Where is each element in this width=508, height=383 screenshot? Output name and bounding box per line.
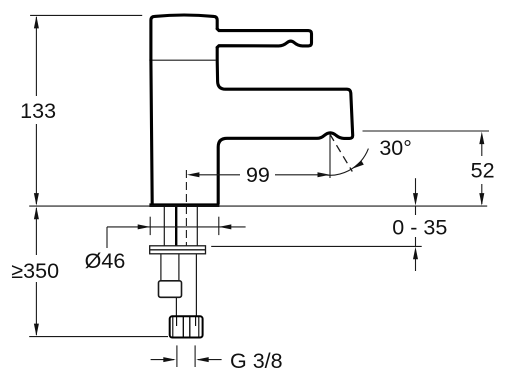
supply tube left, outer line <box>163 207 165 246</box>
aerator level reference line <box>363 130 490 132</box>
svg-text:G 3/8: G 3/8 <box>230 349 283 373</box>
dimension >=350: top arrowhead <box>34 207 39 220</box>
lever handle <box>217 29 311 48</box>
dimension 0-35: dimension line <box>415 178 417 271</box>
svg-text:30°: 30° <box>379 136 412 160</box>
dimension G3/8: left arrowhead <box>163 357 176 362</box>
right supply hose <box>195 254 197 316</box>
angle 30 deg: arc <box>319 149 368 176</box>
dimension 99: right arrowhead <box>318 172 331 177</box>
dimension 0-35: lower arrowhead <box>413 247 418 259</box>
cap seam line <box>152 59 216 61</box>
svg-text:133: 133 <box>20 99 56 123</box>
dimension 133: top extension line <box>30 14 142 16</box>
dimension 52: top arrowhead <box>479 132 484 145</box>
svg-text:Ø46: Ø46 <box>85 249 126 273</box>
dimension G3/8: extension lines <box>177 345 195 367</box>
dimension 99: right extension line at aerator <box>329 135 331 178</box>
svg-text:99: 99 <box>246 163 270 187</box>
angle 30 deg: dashed flow ray <box>330 134 353 172</box>
dimension O46: right arrowhead <box>219 224 232 229</box>
angle 30 deg: arc arrowhead <box>352 160 364 169</box>
mounting washer / flange plate <box>150 246 206 254</box>
supply tube right, outer line <box>196 207 198 246</box>
svg-text:0 - 35: 0 - 35 <box>392 215 447 239</box>
threaded mounting stud (thick line) <box>175 207 177 246</box>
dimension >=350: dimension line <box>35 208 37 335</box>
body right edge and spout with break wave <box>217 48 353 204</box>
dimension G3/8: dimension line <box>151 359 222 361</box>
body bottom edge (thick) <box>149 203 219 207</box>
hose below block <box>175 297 177 316</box>
dimension G3/8: right arrowhead <box>196 357 209 362</box>
svg-text:52: 52 <box>471 158 495 182</box>
dimension 133: dimension line <box>35 17 37 204</box>
dimension 0-35: lower reference line at washer top <box>211 245 422 247</box>
deck / counter line <box>29 205 487 207</box>
dimension >=350: bottom arrowhead <box>34 324 39 337</box>
check valve block <box>159 281 182 298</box>
knurled connection nut G3/8 <box>170 316 203 337</box>
dimension 133: top arrowhead <box>34 16 39 29</box>
dimension 52: dimension line <box>481 143 483 204</box>
faucet cap / handle base <box>151 15 217 60</box>
dimension >=350: bottom extension line <box>29 336 168 338</box>
left supply tube below washer <box>161 254 179 281</box>
dimension O46: left arrowhead <box>138 224 151 229</box>
dimension O46: extension ticks <box>150 217 219 235</box>
dimension 99: dimension line <box>198 174 320 176</box>
dimension O46: dimension line with leader <box>107 227 246 248</box>
dimension 52: bottom arrowhead <box>479 193 484 206</box>
dimension 133: bottom arrowhead <box>34 193 39 206</box>
centerline (dashed), extension for dimension 99 <box>185 170 187 246</box>
svg-text:≥350: ≥350 <box>11 259 59 283</box>
dimension 0-35: upper arrowhead <box>413 193 418 206</box>
body left edge <box>151 60 152 203</box>
dimension 99: left arrowhead <box>187 172 200 177</box>
